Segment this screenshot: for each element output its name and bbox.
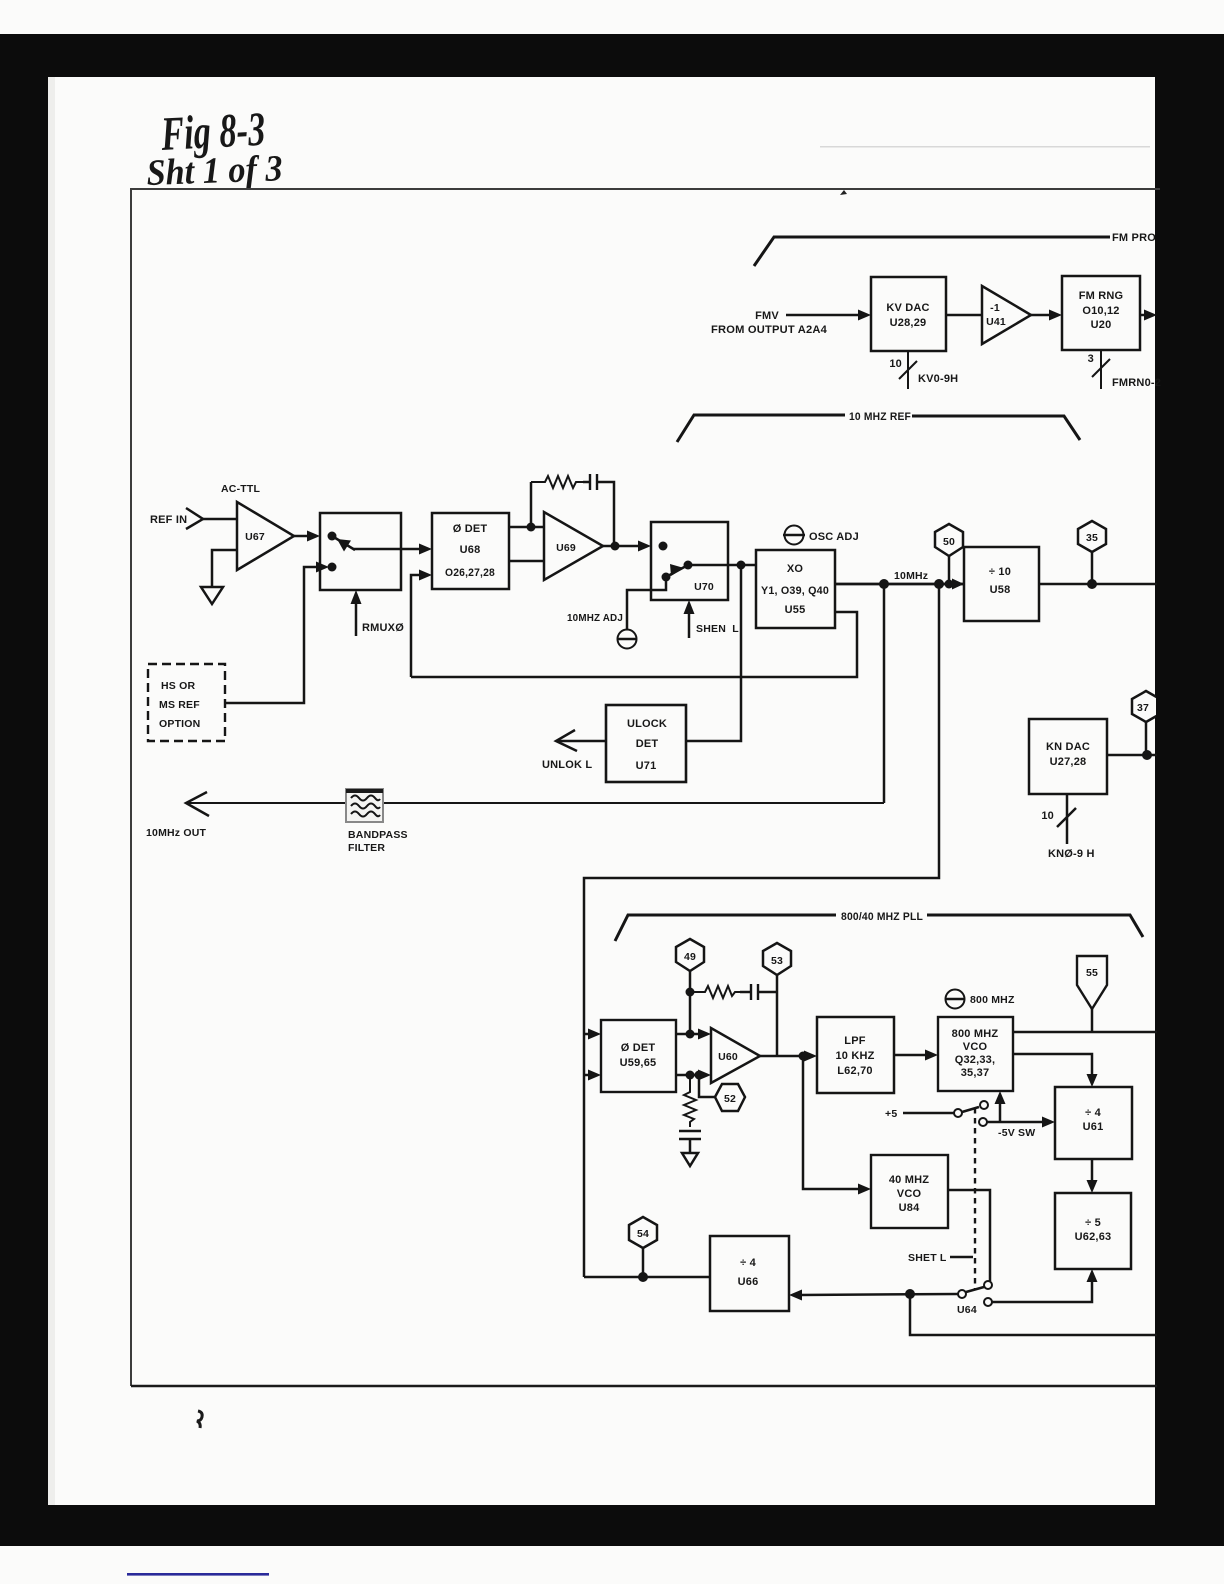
svg-text:O10,12: O10,12 <box>1082 305 1119 317</box>
node junction to ULOCK <box>737 561 746 570</box>
wire hex50 stem <box>948 556 951 584</box>
phase detector U59,65 <box>601 1020 676 1092</box>
svg-text:U71: U71 <box>636 760 657 772</box>
svg-text:Y1, O39, Q40: Y1, O39, Q40 <box>761 585 829 597</box>
wire U68 bottom output to U69 <box>509 560 544 563</box>
wire ULOCK output UNLOK L <box>557 740 606 743</box>
wire U69 to U70 <box>603 545 642 548</box>
wire VCO output to right edge <box>1013 1031 1157 1034</box>
wire switch to U66 input <box>799 1294 958 1295</box>
svg-text:KV DAC: KV DAC <box>886 302 929 314</box>
wire KN DAC output <box>1107 754 1157 757</box>
scan black band bottom <box>0 1505 1224 1546</box>
dashed control line SHET L <box>974 1108 976 1289</box>
svg-text:AC-TTL: AC-TTL <box>221 483 260 495</box>
crystal oscillator XO Y1,Q39,Q40 U55 <box>756 550 835 628</box>
node junction <box>527 523 536 532</box>
divider /4 U66 <box>710 1236 789 1311</box>
wire VCO output to U61 <box>1013 1054 1092 1077</box>
FM PRO bracket <box>754 237 1110 266</box>
trimmer 800 MHZ <box>946 990 965 1009</box>
svg-text:SHEN L: SHEN L <box>696 623 739 635</box>
800 MHZ VCO Q32,33,35,37 <box>938 1017 1013 1091</box>
wire hex35 stem <box>1091 552 1094 584</box>
wire U67 to switch S1 <box>294 535 310 538</box>
op-amp U69 <box>544 512 603 580</box>
svg-text:UNLOK L: UNLOK L <box>542 759 592 771</box>
wire REF IN to U67 <box>203 518 237 521</box>
node U70 pole <box>684 561 693 570</box>
svg-text:LPF: LPF <box>844 1035 865 1047</box>
svg-text:L62,70: L62,70 <box>837 1065 872 1077</box>
svg-text:÷ 5: ÷ 5 <box>1085 1217 1101 1229</box>
wire XO output 10MHz <box>835 583 964 586</box>
bandpass filter <box>346 789 383 822</box>
switch U64 contact left <box>958 1290 966 1298</box>
svg-text:U61: U61 <box>1083 1121 1104 1133</box>
wire 10MHz OUT line <box>187 802 884 804</box>
small ink mark on frame top line <box>840 186 847 195</box>
node S1 contact B <box>328 563 337 572</box>
off-page hexagon 35 <box>1078 521 1106 552</box>
node U70 contact B <box>662 573 671 582</box>
wire flag55 stem <box>1091 1009 1094 1032</box>
svg-text:REF IN: REF IN <box>150 514 187 526</box>
svg-text:35,37: 35,37 <box>961 1067 990 1079</box>
HS OR MS REF OPTION box <box>148 664 225 741</box>
blue pen line bottom <box>127 1573 269 1576</box>
svg-text:10MHz: 10MHz <box>894 570 928 582</box>
svg-text:800/40 MHZ PLL: 800/40 MHZ PLL <box>841 911 923 923</box>
op-amp U41 <box>982 286 1031 344</box>
switch box S1 (RMUX) <box>320 513 401 590</box>
wire 10MHz down to output line <box>883 584 886 803</box>
800/40 MHZ PLL bracket <box>615 915 836 941</box>
svg-text:U41: U41 <box>986 316 1006 328</box>
resistor R (U60 feedback) <box>690 986 740 998</box>
svg-text:FILTER: FILTER <box>348 842 385 854</box>
svg-text:800 MHZ: 800 MHZ <box>952 1028 999 1040</box>
svg-text:800 MHZ: 800 MHZ <box>970 994 1015 1006</box>
wire U70 pole to XO <box>688 564 756 567</box>
scan black band left <box>0 34 48 1546</box>
wire 40MHZ VCO output to switch <box>948 1190 990 1281</box>
svg-text:Ø DET: Ø DET <box>453 523 488 535</box>
switch S2 contact lower <box>979 1118 987 1126</box>
node 10MHz junction <box>879 579 889 589</box>
wire hex54 stem <box>642 1248 645 1277</box>
svg-text:U60: U60 <box>718 1051 738 1063</box>
OSC ADJ trimmer <box>785 526 804 545</box>
svg-text:FM RNG: FM RNG <box>1079 290 1124 302</box>
svg-text:MS REF: MS REF <box>159 699 200 711</box>
svg-text:+5: +5 <box>885 1108 897 1120</box>
ink mark bottom left <box>197 1411 202 1428</box>
wire KV DAC to U41 <box>946 314 982 317</box>
wire U59 top output to U60 <box>676 1033 701 1036</box>
svg-text:10 KHZ: 10 KHZ <box>835 1050 874 1062</box>
switch arm S1 <box>332 536 355 550</box>
wire U64 to U62,63 <box>992 1279 1092 1302</box>
wire FMV to KV DAC <box>786 314 862 317</box>
40 MHZ VCO U84 <box>871 1155 948 1228</box>
wire U66 output to phase det feedback <box>584 1276 710 1279</box>
ground <box>201 587 223 604</box>
off-page flag 55 <box>1077 956 1107 1009</box>
svg-text:SHET L: SHET L <box>908 1252 947 1264</box>
wire feedback into U68 lower input <box>411 575 422 677</box>
svg-text:VCO: VCO <box>897 1188 922 1200</box>
svg-text:U59,65: U59,65 <box>620 1057 657 1069</box>
off-page hexagon 54 <box>629 1217 657 1248</box>
node junction <box>905 1289 915 1299</box>
low pass filter LPF 10KHZ L62,70 <box>817 1017 894 1093</box>
svg-text:KNØ-9 H: KNØ-9 H <box>1048 848 1095 860</box>
capacitor C (U60 feedback) <box>740 991 751 994</box>
svg-text:U69: U69 <box>556 542 576 554</box>
svg-text:÷ 4: ÷ 4 <box>740 1257 756 1269</box>
wire U60 to LPF <box>760 1055 808 1058</box>
svg-text:U27,28: U27,28 <box>1050 756 1087 768</box>
wire ULOCK feed from U70 node <box>686 565 741 741</box>
svg-text:10 MHZ REF: 10 MHZ REF <box>849 411 911 423</box>
svg-text:35: 35 <box>1086 532 1098 544</box>
switch S2 contact <box>954 1109 962 1117</box>
svg-text:FM PRO: FM PRO <box>1112 232 1156 244</box>
svg-text:U66: U66 <box>738 1276 759 1288</box>
wire into phase det U59 top input <box>584 1033 591 1036</box>
svg-text:÷ 4: ÷ 4 <box>1085 1107 1101 1119</box>
switch U64 contact lower <box>984 1298 992 1306</box>
resistor R shunt <box>684 1075 696 1127</box>
capacitor C shunt <box>679 1130 701 1132</box>
amplifier U67 <box>237 502 294 570</box>
svg-text:40 MHZ: 40 MHZ <box>889 1174 929 1186</box>
op-amp U60 <box>711 1028 760 1083</box>
node S1 contact A <box>328 532 337 541</box>
trimmer symbol 10MHZ ADJ <box>618 630 637 649</box>
wire hexagon 52 tap <box>699 1075 715 1097</box>
wire hex53 stem down to U60 output <box>776 975 779 1056</box>
svg-text:52: 52 <box>724 1093 736 1105</box>
10 MHZ REF bracket <box>677 415 845 442</box>
phase detector U68 <box>432 513 509 589</box>
svg-text:U84: U84 <box>899 1202 920 1214</box>
svg-text:OSC ADJ: OSC ADJ <box>809 531 859 543</box>
svg-text:10: 10 <box>889 358 902 370</box>
svg-text:U58: U58 <box>990 584 1011 596</box>
wire U67 ground tap <box>212 550 237 587</box>
FM RNG Q10,12 U20 <box>1062 276 1140 350</box>
svg-text:U67: U67 <box>245 531 265 543</box>
resistor R (U69 feedback) <box>531 476 583 488</box>
ground <box>682 1153 698 1166</box>
svg-text:Sht 1 of 3: Sht 1 of 3 <box>146 148 283 194</box>
off-page hexagon 53 <box>763 943 791 975</box>
node junction to PLL <box>934 579 944 589</box>
off-page hexagon 37 <box>1132 691 1160 722</box>
wire 10MHz to 800/40 PLL <box>584 584 939 1277</box>
switch U64 arm <box>966 1287 984 1292</box>
wire XO feedback to U68 <box>411 612 857 677</box>
svg-text:U20: U20 <box>1091 319 1112 331</box>
off-page hexagon 50 <box>935 524 963 556</box>
switch S2 contact upper <box>980 1101 988 1109</box>
svg-text:HS OR: HS OR <box>161 680 195 692</box>
svg-text:U64: U64 <box>957 1304 977 1316</box>
svg-text:37: 37 <box>1137 702 1149 714</box>
faint scan line top right <box>820 146 1150 148</box>
off-page hexagon 52 <box>715 1084 745 1111</box>
svg-text:XO: XO <box>787 563 804 575</box>
wire 10MHZ ADJ trimmer <box>627 590 651 629</box>
off-page hexagon 49 <box>676 939 704 971</box>
wire U58 output to right edge <box>1039 583 1157 586</box>
node hex35 tap <box>1087 579 1097 589</box>
svg-text:10MHZ ADJ: 10MHZ ADJ <box>567 612 623 624</box>
svg-text:BANDPASS: BANDPASS <box>348 829 408 841</box>
wire LPF to 800MHZ VCO <box>894 1054 928 1057</box>
svg-text:55: 55 <box>1086 967 1098 979</box>
capacitor C (U69 feedback) <box>583 481 590 484</box>
bus stub KV0-9H <box>907 351 909 389</box>
svg-text:U70: U70 <box>694 581 714 593</box>
wire +5 to switch <box>903 1112 954 1115</box>
wire U60 output to 40MHZ VCO <box>803 1056 861 1189</box>
wire -5V SW up into VCO <box>999 1101 1002 1122</box>
svg-text:50: 50 <box>943 536 955 548</box>
svg-text:-1: -1 <box>990 302 1000 314</box>
svg-text:3: 3 <box>1088 353 1094 365</box>
svg-text:10MHz OUT: 10MHz OUT <box>146 827 207 839</box>
node hex37 tap <box>1142 750 1152 760</box>
switch arm U70 <box>666 565 688 577</box>
schematic frame border <box>131 189 1160 1386</box>
svg-text:KV0-9H: KV0-9H <box>918 373 958 385</box>
wire U69 feedback riser <box>530 482 533 527</box>
divider /10 U58 <box>964 547 1039 621</box>
svg-text:ULOCK: ULOCK <box>627 718 667 730</box>
divider /5 U62,63 <box>1055 1193 1131 1269</box>
wire U41 to FM RNG <box>1031 314 1053 317</box>
svg-text:54: 54 <box>637 1228 649 1240</box>
KV DAC U28,29 <box>871 277 946 351</box>
svg-text:-5V SW: -5V SW <box>998 1127 1035 1139</box>
RMUX0 control arrow <box>355 602 358 636</box>
wire -5V SW to U61 <box>987 1121 1045 1124</box>
scan black band right <box>1155 34 1224 1507</box>
wire U70 contact B stub <box>651 577 666 590</box>
node hex50 tap <box>945 580 954 589</box>
svg-text:FROM OUTPUT A2A4: FROM OUTPUT A2A4 <box>711 324 828 336</box>
wire U59 bottom output to U60 <box>676 1074 701 1077</box>
node RC tap <box>686 988 695 997</box>
SHEN L control arrow <box>688 612 691 638</box>
svg-text:OPTION: OPTION <box>159 718 200 730</box>
node U70 contact A <box>659 542 668 551</box>
svg-text:Ø DET: Ø DET <box>621 1042 656 1054</box>
switch box U70 <box>651 522 728 600</box>
svg-text:U68: U68 <box>460 544 481 556</box>
svg-text:RMUXØ: RMUXØ <box>362 622 404 634</box>
wire into phase det U59 bottom input <box>584 1074 591 1077</box>
svg-text:53: 53 <box>771 955 783 967</box>
wire U61 to U62 <box>1091 1159 1094 1183</box>
node hex54 tap <box>638 1272 648 1282</box>
KN DAC U27,28 <box>1029 719 1107 794</box>
switch S2 arm <box>962 1107 979 1112</box>
svg-text:FMV: FMV <box>755 310 779 322</box>
svg-text:O26,27,28: O26,27,28 <box>445 567 495 579</box>
svg-text:10: 10 <box>1041 810 1054 822</box>
switch U64 contact upper <box>984 1281 992 1289</box>
bus stub FMRN0-2 <box>1100 350 1102 389</box>
svg-text:Q32,33,: Q32,33, <box>955 1054 996 1066</box>
scan black band top <box>0 34 1224 77</box>
wire HS/MS option to S1 contact B <box>225 567 318 703</box>
svg-text:FMRN0-2: FMRN0-2 <box>1112 377 1161 389</box>
wire hex49 stem to input node <box>689 971 692 1034</box>
wire U68 top output to U69 <box>509 526 544 529</box>
svg-text:÷ 10: ÷ 10 <box>989 566 1011 578</box>
input connector chevron <box>186 508 203 529</box>
svg-text:49: 49 <box>684 951 696 963</box>
svg-text:VCO: VCO <box>963 1041 988 1053</box>
svg-text:KN DAC: KN DAC <box>1046 741 1090 753</box>
wire hex37 stem <box>1145 722 1148 755</box>
unlock detector ULOCK DET U71 <box>606 705 686 782</box>
svg-text:DET: DET <box>636 738 659 750</box>
divider /4 U61 <box>1055 1087 1132 1159</box>
svg-text:U28,29: U28,29 <box>890 317 927 329</box>
wire FM RNG to right edge <box>1140 314 1148 317</box>
bus stub KN0-9H <box>1066 794 1069 844</box>
wire junction down to right edge <box>910 1294 1157 1335</box>
wire S1 to U68 <box>353 548 423 551</box>
svg-text:U62,63: U62,63 <box>1075 1231 1112 1243</box>
svg-text:U55: U55 <box>785 604 806 616</box>
